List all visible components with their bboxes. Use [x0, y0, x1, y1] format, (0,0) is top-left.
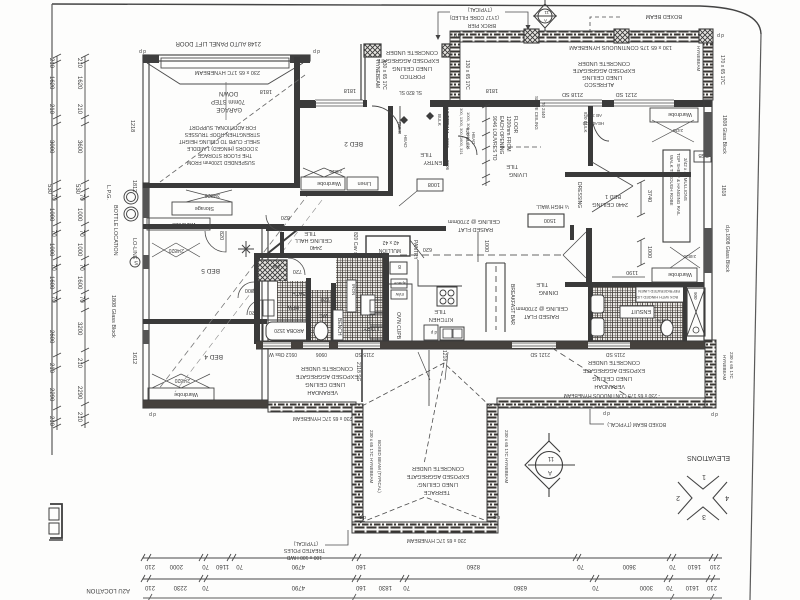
svg-text:230 x 65 17C HYNEBEAM: 230 x 65 17C HYNEBEAM [194, 69, 260, 75]
svg-text:24820: 24820 [683, 254, 696, 259]
svg-text:820 BULK: 820 BULK [465, 128, 470, 149]
svg-text:TILE: TILE [506, 163, 518, 169]
svg-text:1818: 1818 [344, 87, 356, 93]
garage right wall [294, 57, 300, 188]
svg-text:HYNEBEAM: HYNEBEAM [696, 46, 701, 72]
living labels [506, 163, 527, 177]
svg-text:70: 70 [50, 230, 56, 237]
svg-text:AB 320: AB 320 [587, 113, 602, 118]
living bed1 wall [588, 106, 593, 166]
garage top wall [143, 55, 310, 68]
svg-text:LO-LINE: LO-LINE [131, 238, 137, 260]
svg-text:KITCHEN: KITCHEN [429, 316, 453, 322]
svg-text:ELEVATIONS: ELEVATIONS [687, 454, 730, 461]
svg-text:BOXED BEAM (TYPICAL): BOXED BEAM (TYPICAL) [377, 440, 382, 493]
bottom dimension line 2 labels [144, 584, 717, 590]
wall oven boxes [370, 300, 384, 312]
bed5 east wall [262, 228, 268, 408]
svg-text:2115 SD: 2115 SD [355, 351, 374, 357]
left dimension line A labels [46, 58, 56, 427]
svg-text:d p: d p [359, 514, 366, 520]
svg-text:BULK: BULK [437, 114, 442, 126]
svg-text:1500: 1500 [544, 217, 556, 223]
hall corridor wall [280, 232, 284, 255]
svg-text:½ HIGH WALL: ½ HIGH WALL [536, 203, 569, 210]
svg-text:CEILING @ 2700mm: CEILING @ 2700mm [516, 305, 568, 311]
svg-text:130 x 65 17C: 130 x 65 17C [464, 60, 470, 90]
svg-text:2290: 2290 [76, 386, 82, 400]
svg-text:RAISED FLAT: RAISED FLAT [523, 313, 559, 319]
svg-text:1000: 1000 [76, 243, 82, 257]
hall angled wall [262, 230, 297, 258]
garage storage divider wall [143, 183, 294, 188]
kitchen sink [440, 327, 464, 340]
svg-text:d p: d p [149, 411, 156, 417]
svg-text:24820: 24820 [329, 169, 342, 174]
ensuite west wall [588, 284, 593, 344]
svg-text:TERRACE: TERRACE [423, 489, 450, 495]
svg-text:ALFRESCO: ALFRESCO [584, 81, 614, 87]
bed2 wardrobe [301, 177, 345, 190]
svg-text:Storage: Storage [195, 205, 214, 211]
garage roof dashed diagonal [160, 75, 305, 182]
svg-text:70: 70 [577, 563, 584, 569]
svg-text:70: 70 [202, 563, 209, 569]
svg-text:d p: d p [313, 48, 320, 54]
ensuite label box [620, 306, 654, 318]
bed2 window [315, 100, 363, 106]
svg-text:BED 4: BED 4 [204, 353, 223, 360]
LPG label [105, 185, 118, 256]
verandah post line [428, 350, 430, 406]
svg-text:1818: 1818 [720, 185, 726, 196]
svg-text:Wardrobe: Wardrobe [172, 221, 196, 227]
kitchen bench line [389, 260, 462, 344]
svg-text:2121 SD: 2121 SD [616, 91, 637, 97]
living dim column [482, 104, 490, 186]
svg-text:0906: 0906 [445, 116, 450, 127]
sliding doors note [491, 116, 518, 161]
svg-text:4790: 4790 [291, 563, 305, 569]
breakfast bar [486, 263, 505, 332]
alfresco top beam [460, 31, 712, 42]
bath tiled floor [277, 281, 308, 323]
svg-text:BENCH: BENCH [336, 318, 342, 336]
verandah label south [582, 359, 645, 389]
left dimension line A [53, 54, 61, 430]
svg-text:1218: 1218 [441, 350, 447, 361]
alfresco piers [524, 29, 539, 43]
svg-text:ENSUIT: ENSUIT [630, 308, 651, 314]
entry bulkhead dot [400, 116, 408, 124]
svg-text:SUSPENDED 1200mm FROM: SUSPENDED 1200mm FROM [187, 159, 255, 165]
ldry trough [361, 295, 375, 315]
svg-text:HYNEBEAM: HYNEBEAM [722, 355, 727, 381]
svg-text:TOP SHELF & HANGING RAIL: TOP SHELF & HANGING RAIL [676, 153, 681, 216]
bed1 wardrobe nook [650, 108, 698, 122]
svg-text:2430: 2430 [672, 128, 683, 133]
svg-text:70: 70 [78, 296, 84, 303]
bed2 wardrobe X [303, 168, 345, 177]
svg-text:70: 70 [236, 563, 243, 569]
bed4 wardrobe [148, 388, 214, 401]
garage room label [211, 90, 245, 112]
raised ceiling dashed line [400, 254, 563, 256]
svg-text:0906: 0906 [445, 160, 450, 171]
svg-text:LINED CEILING: LINED CEILING [305, 381, 345, 387]
svg-text:TILE: TILE [434, 308, 446, 314]
svg-text:2/4820: 2/4820 [174, 377, 190, 383]
entry door arc [372, 106, 400, 134]
svg-text:VERANDAH: VERANDAH [307, 389, 338, 395]
svg-text:d p: d p [493, 514, 500, 520]
ensuite vanity basins [591, 295, 604, 313]
svg-text:EXPOSED AGGREGATE: EXPOSED AGGREGATE [572, 67, 635, 73]
section marker B11 [533, 0, 557, 34]
svg-text:BOTTLE LOCATION: BOTTLE LOCATION [112, 205, 118, 256]
svg-text:(TYPICAL): (TYPICAL) [293, 540, 318, 546]
ne vertical hynebeam [703, 43, 713, 100]
svg-text:TILE: TILE [536, 281, 548, 287]
svg-text:70: 70 [50, 194, 56, 201]
svg-text:CEILING @ 2700mm: CEILING @ 2700mm [448, 218, 500, 224]
svg-text:Linen: Linen [358, 180, 371, 186]
section marker A11 [525, 433, 575, 497]
svg-text:IRON: IRON [351, 284, 356, 295]
portico label [376, 49, 439, 79]
living west wall [443, 106, 448, 166]
wc walls [306, 278, 311, 344]
bulk head arc living [458, 136, 477, 155]
svg-text:230 x 65 17C HYNEBEAM: 230 x 65 17C HYNEBEAM [407, 537, 466, 543]
svg-text:MULLION: MULLION [378, 247, 401, 253]
svg-text:1190: 1190 [626, 269, 638, 275]
svg-text:BED 5: BED 5 [201, 267, 220, 274]
svg-text:BULK: BULK [397, 122, 402, 134]
svg-text:OV'N CUPB: OV'N CUPB [395, 312, 401, 340]
svg-text:620: 620 [423, 246, 432, 252]
shower crosshatch [258, 260, 287, 281]
bed2 linen [347, 177, 378, 190]
svg-text:2440 CEILING: 2440 CEILING [592, 201, 628, 207]
bed2 east wall [388, 106, 393, 195]
svg-text:DOWN: DOWN [219, 90, 238, 96]
svg-text:900: 900 [693, 292, 698, 300]
half high wall box [528, 214, 564, 227]
svg-text:230 x 65 17C: 230 x 65 17C [729, 352, 734, 380]
svg-text:3/42 x 42 MULLIONS: 3/42 x 42 MULLIONS [683, 158, 688, 201]
south window labels [269, 350, 625, 361]
alfresco label [572, 60, 635, 87]
svg-text:LINED CEILING: LINED CEILING [592, 375, 632, 381]
svg-text:FLOOR: FLOOR [512, 116, 518, 134]
svg-text:0912 Obs W: 0912 Obs W [269, 351, 297, 357]
bath niche box [263, 300, 274, 316]
terrace label [406, 465, 469, 495]
wc tiled floor [311, 290, 333, 342]
svg-text:210: 210 [76, 358, 82, 369]
bed1 dim 1190 [612, 276, 645, 278]
svg-text:HPW: HPW [287, 304, 299, 310]
svg-text:1000: 1000 [646, 246, 652, 258]
svg-text:230 x 65 17C HYNEBEAM: 230 x 65 17C HYNEBEAM [504, 430, 509, 484]
hall north wall [266, 226, 446, 231]
dining label [516, 281, 568, 319]
svg-text:1160: 1160 [215, 563, 229, 569]
svg-text:REFRIGERATED LINEN: REFRIGERATED LINEN [638, 289, 680, 293]
svg-text:EXPOSED AGGREGATE: EXPOSED AGGREGATE [295, 373, 358, 379]
svg-text:BATH: BATH [292, 290, 306, 296]
svg-text:PORTICO: PORTICO [399, 73, 425, 79]
svg-text:210: 210 [76, 58, 82, 69]
bottom dimension line 1 labels [144, 563, 720, 569]
svg-text:L.P.G.: L.P.G. [105, 185, 111, 200]
east wall labels [720, 115, 730, 273]
svg-text:210: 210 [76, 104, 82, 115]
svg-text:70: 70 [666, 584, 673, 590]
svg-text:- 230 x 65 175 CONTINUOUS HYNE: - 230 x 65 175 CONTINUOUS HYNEBEAM [564, 392, 660, 398]
svg-text:BED 1: BED 1 [605, 193, 621, 199]
svg-text:BREAKFAST BAR: BREAKFAST BAR [509, 284, 515, 325]
ensuite tiled floor [593, 287, 683, 341]
svg-text:2600: 2600 [48, 330, 54, 344]
verandah beam east segment [497, 398, 710, 408]
left dimension line B [81, 54, 89, 428]
south wall main [256, 341, 712, 349]
svg-text:70: 70 [78, 230, 84, 237]
svg-text:BRICK PIER: BRICK PIER [467, 22, 496, 28]
svg-text:210: 210 [48, 416, 54, 427]
svg-text:300, 1300, 300, 1600, 321: 300, 1300, 300, 1600, 321 [459, 108, 464, 155]
svg-text:3000: 3000 [639, 584, 653, 590]
raised flat ceiling label upper [448, 218, 500, 232]
svg-text:210: 210 [48, 58, 54, 69]
kitchen dp space box [424, 325, 438, 340]
bed1 south wall [565, 282, 704, 287]
portico left pier [364, 44, 381, 57]
svg-text:3600: 3600 [76, 140, 82, 154]
ldry bench [333, 310, 343, 340]
svg-text:HEAD: HEAD [471, 132, 476, 145]
terrace center dashed [424, 363, 444, 464]
legend box bottom left [49, 504, 63, 540]
svg-text:SL 820 SL: SL 820 SL [399, 89, 422, 95]
svg-text:2/4820: 2/4820 [168, 247, 184, 253]
svg-text:1610: 1610 [687, 563, 701, 569]
svg-text:6360: 6360 [513, 584, 527, 590]
svg-text:230 x 65 17C HYNEBEAM: 230 x 65 17C HYNEBEAM [293, 415, 352, 421]
svg-text:FOR ADDITIONAL SUPPORT: FOR ADDITIONAL SUPPORT [189, 124, 256, 130]
svg-text:CONCRETE UNDER: CONCRETE UNDER [301, 365, 353, 371]
svg-text:d p: d p [711, 411, 718, 417]
svg-text:2121 SD: 2121 SD [530, 351, 550, 357]
bed5 wardrobe [147, 218, 210, 230]
ldry east wall [383, 253, 389, 344]
verandah ne hatched column [705, 340, 716, 408]
svg-text:CONCRETE UNDER: CONCRETE UNDER [578, 60, 630, 66]
wtr shower crosshatch [687, 288, 705, 336]
hall star symbol [238, 241, 254, 257]
svg-text:70: 70 [669, 563, 676, 569]
bed1 dim 3740 [637, 180, 645, 217]
svg-text:1: 1 [702, 473, 706, 480]
svg-text:1200mm FROM: 1200mm FROM [505, 116, 511, 152]
svg-text:2230: 2230 [173, 584, 187, 590]
svg-text:2000: 2000 [169, 563, 183, 569]
front windows right [540, 100, 674, 106]
svg-text:L'DRY: L'DRY [363, 325, 379, 331]
svg-text:820: 820 [218, 231, 224, 240]
svg-text:LINED CEILING': LINED CEILING' [417, 481, 458, 487]
entry front wall and door [430, 100, 540, 107]
svg-text:1818: 1818 [486, 87, 498, 93]
portico hynebeam vertical [450, 31, 460, 103]
east exterior wall [704, 100, 712, 344]
svg-text:3: 3 [702, 513, 706, 520]
walk through robe [663, 150, 690, 242]
svg-text:0906: 0906 [316, 351, 327, 357]
svg-text:100 x 100 HWD: 100 x 100 HWD [286, 554, 322, 560]
svg-text:160: 160 [355, 584, 366, 590]
bottom dimension line 2 [141, 575, 720, 582]
svg-text:1000: 1000 [483, 240, 489, 252]
iron board [347, 280, 356, 312]
south wall leader arrows [418, 352, 448, 380]
svg-text:70: 70 [78, 194, 84, 201]
svg-text:3200: 3200 [76, 322, 82, 336]
svg-text:210: 210 [144, 563, 155, 569]
west bottom wall [143, 400, 268, 408]
svg-text:9046 LOUVRES TO: 9046 LOUVRES TO [491, 116, 497, 161]
svg-text:11: 11 [547, 455, 554, 461]
svg-text:230 x 65 17C HYNEBEAM: 230 x 65 17C HYNEBEAM [369, 430, 374, 484]
svg-text:EXPOSED AGGREGATE: EXPOSED AGGREGATE [406, 473, 469, 479]
svg-text:210: 210 [709, 563, 720, 569]
svg-text:CONCRETE UNDER: CONCRETE UNDER [412, 465, 464, 471]
sheet border left line [51, 4, 53, 455]
garage truss note [179, 124, 260, 165]
svg-text:d p: d p [430, 330, 437, 335]
svg-text:130 x 65 175 CONTINUOUS HYNEBE: 130 x 65 175 CONTINUOUS HYNEBEAM [569, 44, 672, 50]
brick pier note [449, 6, 499, 36]
svg-text:ENTRY: ENTRY [423, 159, 442, 165]
svg-text:space: space [393, 281, 406, 286]
svg-text:1008: 1008 [428, 181, 440, 187]
svg-text:2290: 2290 [48, 388, 54, 402]
svg-text:8260: 8260 [466, 563, 480, 569]
svg-text:EACH OPENING: EACH OPENING [498, 116, 504, 154]
ensuite fridge note box [636, 287, 685, 302]
verandah label west [295, 365, 358, 395]
left wall window labels [110, 120, 137, 364]
svg-text:1808 Glass Block: 1808 Glass Block [721, 115, 727, 154]
svg-text:VERANDAH: VERANDAH [594, 383, 625, 389]
svg-text:HEAD 320: HEAD 320 [582, 121, 604, 126]
svg-text:170 x 65 17C: 170 x 65 17C [719, 55, 725, 85]
svg-text:210: 210 [48, 104, 54, 115]
left wall glass block fills [143, 188, 149, 218]
svg-text:HYNEBEAM: HYNEBEAM [374, 60, 380, 88]
ensuite east wall [683, 284, 687, 344]
svg-text:900: 900 [272, 264, 280, 269]
svg-text:SHELF CUPB TO CEILING HEIGHT: SHELF CUPB TO CEILING HEIGHT [179, 138, 260, 144]
bed1 dim 1000 [637, 238, 645, 267]
svg-text:1218: 1218 [129, 120, 135, 132]
svg-text:70mm STEP: 70mm STEP [211, 98, 245, 104]
svg-text:d p: d p [139, 48, 146, 54]
bed1 north wall [565, 172, 691, 177]
bottom dimension line 3 partial [143, 594, 722, 600]
verandah hip dashed right [552, 348, 643, 406]
svg-text:CEILING HALL: CEILING HALL [295, 237, 332, 243]
portico right pier [442, 44, 458, 57]
svg-text:3/4820: 3/4820 [204, 192, 220, 198]
kitchen cupboard boxes [391, 279, 407, 288]
elevations cross [678, 476, 727, 520]
bed1 wardrobe row [652, 268, 697, 282]
kitchen stove [437, 287, 457, 306]
svg-text:DINING: DINING [539, 289, 558, 295]
svg-text:2115 SD: 2115 SD [606, 351, 625, 357]
svg-text:BOX WITH HINGED LID: BOX WITH HINGED LID [636, 295, 678, 299]
svg-text:AROBA 1520: AROBA 1520 [274, 327, 304, 333]
ensuite toilet [661, 320, 673, 336]
left dimension line B labels [74, 58, 84, 423]
svg-text:THE FLOOR STORAGE: THE FLOOR STORAGE [197, 152, 252, 158]
svg-text:A: A [548, 469, 552, 475]
terrace right column [487, 404, 498, 528]
svg-text:2118 SD: 2118 SD [562, 91, 583, 97]
svg-text:70: 70 [78, 264, 84, 271]
wc toilet [314, 322, 328, 340]
svg-text:2440: 2440 [310, 244, 322, 250]
svg-text:2148 AUTO PANEL LIFT DOOR: 2148 AUTO PANEL LIFT DOOR [175, 40, 261, 46]
bath tub [266, 322, 311, 340]
svg-text:A: A [544, 18, 547, 23]
svg-text:1600: 1600 [48, 276, 54, 290]
bed1 label [592, 193, 628, 207]
svg-text:S: S [134, 259, 138, 265]
svg-text:4: 4 [725, 494, 729, 501]
svg-text:1818: 1818 [260, 88, 272, 94]
south wall windows [263, 342, 630, 348]
svg-text:DRESSING: DRESSING [576, 182, 582, 208]
svg-text:160: 160 [355, 563, 366, 569]
svg-text:WALK THROUGH ROBE: WALK THROUGH ROBE [669, 155, 674, 206]
svg-text:(1Y17 CORE FILLED): (1Y17 CORE FILLED) [449, 14, 499, 20]
terrace hip lines upper [362, 363, 490, 406]
svg-text:d p: d p [603, 410, 610, 416]
svg-text:1000: 1000 [48, 243, 54, 257]
svg-text:720: 720 [321, 296, 330, 302]
svg-text:2: 2 [676, 494, 680, 501]
sheet border right line [750, 34, 761, 600]
bed5 top wall [143, 224, 284, 229]
wet block left wall [254, 253, 260, 344]
svg-text:0906: 0906 [445, 138, 450, 149]
svg-text:210: 210 [48, 363, 54, 374]
fridge box [390, 262, 407, 274]
svg-text:Wardrobe: Wardrobe [317, 180, 341, 186]
svg-text:SLEPE CEILING: SLEPE CEILING [534, 96, 539, 130]
svg-text:CONCRETE UNDER: CONCRETE UNDER [588, 359, 640, 365]
svg-text:LINED CEILING: LINED CEILING [392, 65, 432, 71]
svg-text:d p: d p [454, 32, 461, 38]
svg-text:70: 70 [592, 584, 599, 590]
svg-text:A2U LOCATION: A2U LOCATION [86, 587, 130, 593]
svg-text:1610: 1610 [685, 584, 699, 590]
svg-text:LIVING: LIVING [509, 171, 527, 177]
